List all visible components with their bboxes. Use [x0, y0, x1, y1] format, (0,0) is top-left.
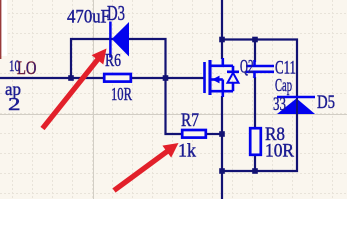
svg-text:R7: R7 — [181, 110, 199, 131]
svg-text:D3: D3 — [107, 1, 125, 25]
svg-text:Q2: Q2 — [240, 56, 254, 77]
svg-text:D5: D5 — [317, 92, 335, 113]
svg-text:R6: R6 — [105, 50, 121, 70]
svg-text:10R: 10R — [111, 84, 132, 104]
svg-text:Cap: Cap — [275, 75, 292, 95]
svg-text:470uF: 470uF — [67, 6, 110, 27]
svg-text:33: 33 — [273, 94, 286, 115]
svg-text:1k: 1k — [178, 140, 196, 161]
svg-text:LO: LO — [17, 59, 37, 79]
svg-text:10R: 10R — [265, 141, 294, 162]
svg-text:2: 2 — [8, 94, 21, 114]
